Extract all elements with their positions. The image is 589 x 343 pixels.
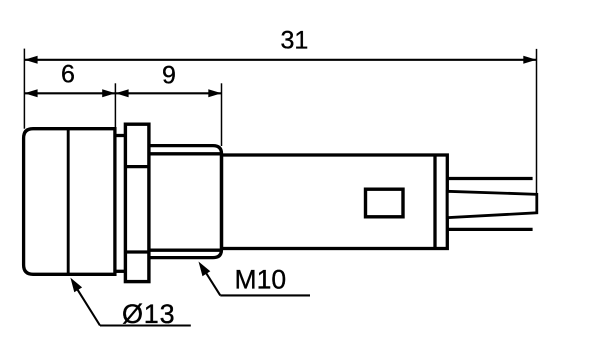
- svg-text:9: 9: [162, 62, 176, 90]
- dimension line 6: [24, 89, 115, 97]
- neck bottom line: [115, 270, 127, 273]
- extension line right (x=536.5): [536, 49, 538, 193]
- bezel (front lens housing): [24, 129, 115, 275]
- label M10: [235, 264, 287, 294]
- dimension line 31: [24, 56, 536, 64]
- leader M10: [199, 262, 311, 296]
- rear end-cap line: [433, 154, 436, 249]
- terminal top lead: [447, 177, 532, 180]
- extension line 9-right (x=221.5): [221, 83, 223, 146]
- body (rear cylinder): [222, 155, 448, 249]
- thread root line top: [149, 152, 222, 155]
- dimension text 31: [280, 27, 308, 55]
- svg-text:Ø13: Ø13: [122, 299, 175, 329]
- dimension line 9: [115, 89, 221, 97]
- thread crest outline M10: [149, 146, 222, 258]
- svg-text:6: 6: [61, 61, 75, 89]
- leader D13: [70, 278, 190, 326]
- lens division line: [67, 129, 70, 275]
- svg-text:31: 31: [280, 27, 308, 55]
- dimension text 9: [162, 62, 176, 90]
- terminal bottom lead: [447, 228, 532, 231]
- terminal middle blade: [447, 191, 537, 217]
- lamp window rectangle: [366, 189, 404, 217]
- label diameter 13: [122, 299, 175, 329]
- thread root line bottom: [149, 249, 222, 252]
- nut facet line upper: [125, 165, 148, 168]
- neck top line: [115, 134, 127, 137]
- extension line middle (x=115.4): [114, 83, 116, 135]
- extension line left (x=24.4): [23, 49, 25, 129]
- mounting nut: [125, 124, 148, 281]
- nut facet line lower: [125, 250, 148, 253]
- svg-text:M10: M10: [235, 264, 287, 294]
- dimension text 6: [61, 61, 75, 89]
